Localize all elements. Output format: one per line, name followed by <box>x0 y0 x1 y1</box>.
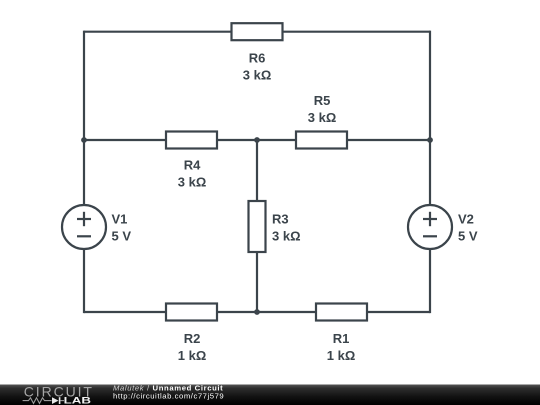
label R6 <box>243 51 272 83</box>
label R1 <box>327 331 356 363</box>
svg-text:V1: V1 <box>112 212 128 227</box>
svg-text:3 kΩ: 3 kΩ <box>272 229 301 244</box>
svg-text:5 V: 5 V <box>458 228 478 243</box>
svg-text:V2: V2 <box>458 212 474 227</box>
label V2 <box>458 212 478 244</box>
resistor R3 <box>249 201 266 252</box>
node junction left <box>81 137 87 143</box>
svg-text:R5: R5 <box>314 93 331 108</box>
voltage source V2 <box>408 205 452 249</box>
svg-text:LAB: LAB <box>64 396 91 405</box>
wire right rail upper <box>429 31 431 140</box>
svg-text:3 kΩ: 3 kΩ <box>308 110 337 125</box>
svg-text:1 kΩ: 1 kΩ <box>327 348 356 363</box>
label R3 <box>272 211 301 243</box>
svg-text:1 kΩ: 1 kΩ <box>178 348 207 363</box>
wire center branch lower <box>256 252 258 312</box>
resistor R5 <box>296 132 347 149</box>
svg-text:R2: R2 <box>184 331 201 346</box>
wire middle rail <box>84 139 430 141</box>
label V1 <box>112 212 132 244</box>
wire left rail upper <box>83 31 85 140</box>
resistor R4 <box>166 132 217 149</box>
logo diode <box>52 397 64 404</box>
svg-text:3 kΩ: 3 kΩ <box>243 68 272 83</box>
voltage source V1 <box>62 205 106 249</box>
wire right rail below V2 <box>429 249 431 313</box>
wire left rail below V1 <box>83 249 85 313</box>
node junction center <box>254 137 260 143</box>
wire bottom rail <box>84 311 430 313</box>
resistor R6 <box>232 23 283 40</box>
node junction right <box>427 137 433 143</box>
node junction bottom <box>254 309 260 315</box>
svg-text:R6: R6 <box>249 51 266 66</box>
label R2 <box>178 331 207 363</box>
wire center branch upper <box>256 140 258 201</box>
svg-text:R3: R3 <box>272 211 289 226</box>
logo resistor zigzag <box>23 398 52 404</box>
svg-text:http://circuitlab.com/c77j579: http://circuitlab.com/c77j579 <box>113 391 224 400</box>
label R4 <box>178 158 207 190</box>
footer bar <box>0 385 540 405</box>
resistor R1 <box>316 304 367 321</box>
wire left rail to V1 <box>83 140 85 205</box>
svg-text:R1: R1 <box>333 331 350 346</box>
wire right rail to V2 <box>429 140 431 205</box>
svg-text:R4: R4 <box>184 158 201 173</box>
wire top rail <box>84 31 430 33</box>
svg-text:5 V: 5 V <box>112 228 132 243</box>
svg-text:3 kΩ: 3 kΩ <box>178 175 207 190</box>
resistor R2 <box>166 304 217 321</box>
label R5 <box>308 93 337 125</box>
